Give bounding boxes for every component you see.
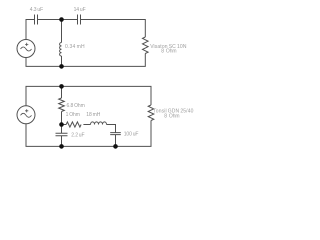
resistor R4 Tonsil GDN 25/40 bbox=[148, 105, 154, 121]
svg-text:18 mH: 18 mH bbox=[86, 112, 100, 118]
AC source V1 bbox=[17, 40, 35, 58]
AC source V2 bbox=[17, 106, 35, 124]
node dot top circuit bottom rail bbox=[59, 64, 64, 69]
capacitor C2 14 uF bbox=[78, 15, 81, 25]
wire top circuit: top rail left segment bbox=[26, 20, 35, 40]
svg-text:8 Ohm: 8 Ohm bbox=[164, 114, 179, 120]
wire top circuit: top rail mid segment bbox=[38, 19, 78, 21]
node dot top rail bbox=[59, 17, 64, 22]
inductor L1 0.34 mH bbox=[60, 43, 62, 57]
wire top circuit: bottom rail bbox=[26, 54, 145, 67]
svg-text:6.8 Ohm: 6.8 Ohm bbox=[67, 103, 85, 109]
wire bottom circuit: top rail bbox=[26, 86, 151, 105]
wire RL branch horizontal bbox=[62, 124, 67, 126]
capacitor C3 2.2 uF bbox=[56, 133, 68, 136]
wire bottom circuit: bottom rail bbox=[26, 121, 151, 147]
svg-text:100 uF: 100 uF bbox=[124, 132, 139, 138]
resistor R1 Visaton SC 10N bbox=[143, 37, 149, 54]
resistor R3 1 Ohm bbox=[66, 122, 81, 127]
wire top circuit: inductor branch stubs bbox=[61, 20, 63, 43]
capacitor C1 4.3 uF bbox=[35, 15, 38, 25]
wire top circuit: top rail right segment bbox=[81, 20, 146, 38]
resistor R2 6.8 Ohm bbox=[59, 98, 65, 112]
svg-text:4.3 uF: 4.3 uF bbox=[30, 7, 43, 13]
node dot bottom rail right bbox=[113, 144, 118, 149]
svg-text:2.2 uF: 2.2 uF bbox=[71, 132, 84, 138]
node dot RL junction bbox=[59, 122, 64, 127]
node dot bottom rail left bbox=[59, 144, 64, 149]
svg-text:14 uF: 14 uF bbox=[74, 7, 86, 13]
inductor L2 18 mH bbox=[91, 122, 107, 125]
capacitor C4 100 uF bbox=[110, 133, 121, 135]
wire bottom circuit: middle branch verticals bbox=[61, 86, 63, 98]
svg-text:1 Ohm: 1 Ohm bbox=[66, 112, 80, 118]
svg-text:8 Ohm: 8 Ohm bbox=[161, 49, 176, 55]
node dot bottom circuit top rail bbox=[59, 84, 64, 89]
svg-text:0.34 mH: 0.34 mH bbox=[65, 44, 85, 50]
